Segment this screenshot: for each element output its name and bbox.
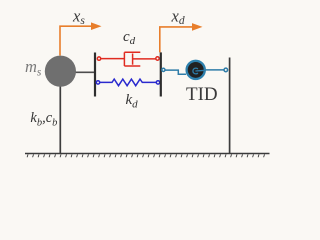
right wall bar [160,52,162,96]
damper c_d [97,52,159,66]
ground line [25,153,270,155]
inerter inner glyph [193,68,206,74]
TID inerter branch wire left [162,68,186,74]
wire mass to ground [59,85,61,154]
TID wire right [205,68,228,72]
svg-text:TID: TID [186,84,218,105]
spring k_d [96,79,159,86]
arrow x_s [60,6,102,55]
mass m_s [45,56,76,87]
wire mass to left wall [73,71,95,73]
right wall to ground [229,58,231,154]
inerter body [187,61,205,79]
arrow x_d [160,7,203,53]
left wall bar [94,53,96,97]
ground hatching [27,154,264,157]
